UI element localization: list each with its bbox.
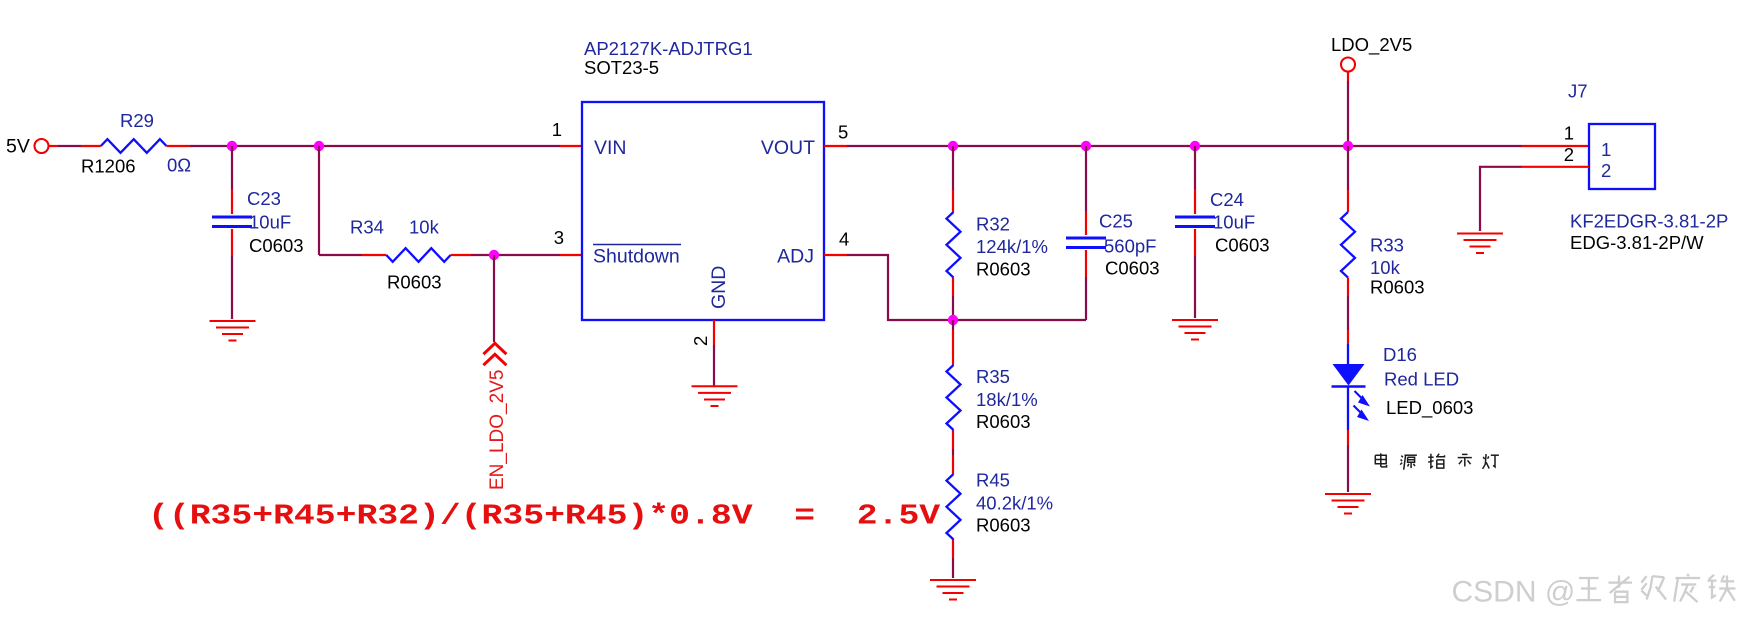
U1 part labels — [584, 38, 753, 78]
R32 labels — [976, 214, 1048, 280]
resistor R45 — [947, 474, 961, 540]
resistor R35 — [947, 365, 961, 430]
svg-text:2: 2 — [1564, 144, 1574, 165]
D16 emission arrows — [1354, 391, 1371, 421]
J7 pin numbers outside — [1564, 123, 1574, 166]
svg-text:CSDN @: CSDN @ — [1452, 576, 1576, 609]
svg-text:R0603: R0603 — [387, 272, 442, 293]
ground under D16 — [1325, 494, 1371, 514]
wire R29 to VIN (main rail left) — [167, 145, 583, 147]
resistor R32 — [947, 212, 961, 278]
svg-text:R29: R29 — [120, 110, 154, 131]
wire C24 branch — [1194, 146, 1196, 318]
node LDO_2V5 port circle — [1341, 58, 1355, 72]
R35 labels — [976, 366, 1038, 432]
resistor R29 — [101, 139, 167, 153]
svg-text:EDG-3.81-2P/W: EDG-3.81-2P/W — [1570, 232, 1704, 253]
svg-text:4: 4 — [839, 229, 849, 250]
svg-text:C0603: C0603 — [1105, 258, 1160, 279]
node junction R34 branch — [314, 141, 324, 151]
watermark CSDN — [1452, 576, 1576, 609]
svg-text:Shutdown: Shutdown — [593, 246, 680, 268]
svg-text:R32: R32 — [976, 214, 1010, 235]
svg-text:LED_0603: LED_0603 — [1386, 397, 1473, 419]
capacitor C24 — [1175, 217, 1215, 227]
C24 labels — [1210, 189, 1270, 256]
svg-text:Red LED: Red LED — [1384, 369, 1459, 390]
port EN_LDO_2V5 chevron — [483, 343, 506, 365]
J7 part labels — [1570, 211, 1728, 254]
ground under C24 — [1172, 320, 1218, 340]
node junction C25 top — [1081, 141, 1091, 151]
svg-text:560pF: 560pF — [1104, 236, 1156, 257]
wire C23 branch — [231, 146, 233, 319]
svg-text:10k: 10k — [1370, 257, 1401, 278]
R34 labels — [350, 217, 442, 293]
svg-text:C24: C24 — [1210, 189, 1244, 210]
svg-text:1: 1 — [552, 119, 562, 140]
svg-text:GND: GND — [708, 266, 730, 309]
node LDO_2V5 label — [1331, 34, 1412, 56]
svg-text:C0603: C0603 — [249, 235, 304, 256]
svg-text:EN_LDO_2V5: EN_LDO_2V5 — [487, 370, 508, 490]
U1 pin names — [593, 137, 815, 309]
D16 labels — [1383, 344, 1473, 419]
svg-text:J7: J7 — [1568, 81, 1588, 102]
svg-text:124k/1%: 124k/1% — [976, 236, 1048, 257]
svg-text:R34: R34 — [350, 217, 384, 238]
wire VOUT rail — [824, 145, 1589, 147]
capacitor C23 — [212, 217, 252, 227]
wire R35 branch — [952, 320, 954, 578]
formula text — [148, 500, 941, 532]
R33 labels — [1370, 235, 1425, 298]
wire U1 GND pin — [713, 320, 715, 386]
svg-text:0Ω: 0Ω — [167, 155, 191, 176]
R29 labels — [81, 110, 191, 177]
resistor R33 — [1341, 212, 1355, 278]
svg-text:10uF: 10uF — [1213, 212, 1255, 233]
ground under R45 — [930, 580, 976, 600]
node 5V label — [6, 136, 30, 158]
svg-text:VOUT: VOUT — [761, 137, 815, 159]
wire ADJ net — [824, 255, 1086, 320]
svg-text:C0603: C0603 — [1215, 235, 1270, 256]
node junction C24 top — [1190, 141, 1200, 151]
svg-text:10k: 10k — [409, 217, 440, 238]
net label EN_LDO_2V5 — [487, 370, 508, 490]
ground under J7 pin2 — [1457, 234, 1503, 254]
svg-text:5V: 5V — [6, 136, 30, 158]
svg-text:R0603: R0603 — [976, 259, 1031, 280]
IC U1 AP2127K-ADJTRG1 (LDO regulator) box — [582, 102, 824, 320]
node junction R32 top — [948, 141, 958, 151]
svg-text:R33: R33 — [1370, 235, 1404, 256]
svg-text:ADJ: ADJ — [777, 246, 814, 268]
svg-text:2: 2 — [690, 336, 711, 346]
wire R32 branch — [952, 146, 954, 320]
ground under C23 — [210, 321, 256, 341]
connector J7 box — [1589, 124, 1655, 189]
svg-text:2: 2 — [1601, 160, 1611, 181]
wire R34 branch vertical — [318, 146, 320, 255]
J7 label — [1568, 81, 1588, 102]
J7 pin numbers inside — [1601, 139, 1611, 181]
svg-text:((R35+R45+R32)/(R35+R45)*0.8V: ((R35+R45+R32)/(R35+R45)*0.8V = 2.5V — [148, 500, 941, 532]
svg-text:R45: R45 — [976, 470, 1010, 491]
wire LED to ground — [1347, 430, 1349, 492]
diode D16 LED — [1332, 344, 1366, 430]
note 电源指示灯 — [1375, 453, 1386, 467]
svg-text:R0603: R0603 — [976, 515, 1031, 536]
resistor R34 — [386, 248, 450, 262]
node junction ADJ node — [948, 315, 958, 325]
svg-text:R1206: R1206 — [81, 156, 136, 177]
R45 labels — [976, 470, 1053, 536]
wire 5V to R29 — [49, 145, 101, 147]
U1 pin numbers — [552, 119, 850, 346]
svg-text:KF2EDGR-3.81-2P: KF2EDGR-3.81-2P — [1570, 211, 1728, 232]
wire R34 branch horizontal — [319, 254, 582, 256]
svg-text:18k/1%: 18k/1% — [976, 389, 1038, 410]
capacitor C25 — [1066, 238, 1106, 248]
svg-text:VIN: VIN — [594, 137, 627, 159]
wire R33 branch — [1347, 146, 1349, 344]
svg-text:5: 5 — [838, 122, 848, 143]
svg-text:R35: R35 — [976, 366, 1010, 387]
svg-text:C23: C23 — [247, 188, 281, 209]
svg-text:LDO_2V5: LDO_2V5 — [1331, 34, 1412, 56]
svg-text:R0603: R0603 — [1370, 277, 1425, 298]
node junction EN net — [489, 250, 499, 260]
ground under U1 — [692, 386, 738, 406]
svg-text:C25: C25 — [1099, 211, 1133, 232]
svg-text:SOT23-5: SOT23-5 — [584, 57, 659, 78]
wire J7 pin 2 to ground — [1480, 167, 1522, 231]
node junction LDO rail — [1343, 141, 1353, 151]
wire C25 branch — [1085, 146, 1087, 320]
node junction C23 branch — [227, 141, 237, 151]
node 5V port circle — [35, 139, 49, 153]
svg-text:AP2127K-ADJTRG1: AP2127K-ADJTRG1 — [584, 38, 753, 59]
svg-text:3: 3 — [554, 227, 564, 248]
C23 labels — [247, 188, 304, 256]
svg-text:10uF: 10uF — [249, 212, 291, 233]
svg-text:1: 1 — [1601, 139, 1611, 160]
wire EN_LDO_2V5 stub — [493, 255, 495, 342]
C25 labels — [1099, 211, 1160, 279]
svg-text:D16: D16 — [1383, 344, 1417, 365]
svg-text:1: 1 — [1564, 123, 1574, 144]
wire J7 pin 2 stub — [1522, 166, 1589, 168]
svg-text:40.2k/1%: 40.2k/1% — [976, 493, 1053, 514]
wire LDO_2V5 to rail — [1347, 72, 1349, 147]
svg-text:R0603: R0603 — [976, 411, 1031, 432]
